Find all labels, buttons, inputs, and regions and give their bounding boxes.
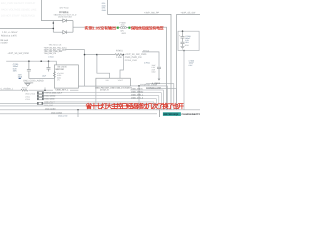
wire bottom line B xyxy=(0,109,200,111)
svg-text:DO NOT STUFF RESERVED: DO NOT STUFF RESERVED xyxy=(1,15,35,18)
wire cap bank drop xyxy=(183,51,185,110)
wire bottom diode branch xyxy=(53,31,73,33)
svg-text:省十七灯大主控已经返修过几次了换了也开: 省十七灯大主控已经返修过几次了换了也开 xyxy=(85,103,185,111)
wire r1 branch down xyxy=(138,86,140,110)
green pad right of fuse xyxy=(128,27,130,29)
junction dot r1 xyxy=(138,85,140,87)
label net TRA block xyxy=(44,47,67,55)
ghost text top-left xyxy=(1,2,37,17)
svg-text:3528: 3528 xyxy=(185,44,189,47)
svg-text:WR7990 BQ2: WR7990 BQ2 xyxy=(163,113,179,116)
fan row r0 xyxy=(146,84,174,110)
svg-text:R7951: R7951 xyxy=(116,50,123,53)
svg-text:20%: 20% xyxy=(185,41,189,44)
svg-text:+3VP_S0_SW_C500: +3VP_S0_SW_C500 xyxy=(125,53,147,56)
cap bank box xyxy=(178,31,199,50)
svg-text:C_AG500_L: C_AG500_L xyxy=(1,88,14,91)
fan row r3 xyxy=(130,90,163,110)
box charger left edge xyxy=(159,110,161,117)
svg-text:0R33 L7510: 0R33 L7510 xyxy=(25,93,35,96)
junction dots feed xyxy=(84,54,98,56)
teal highlight xyxy=(163,112,181,116)
svg-text:D5700 SOT-363: D5700 SOT-363 xyxy=(58,15,72,18)
svg-text:C7911: C7911 xyxy=(144,61,151,64)
svg-text:TRA_SD1_CD: TRA_SD1_CD xyxy=(44,52,57,55)
pad FB2 ends xyxy=(37,95,38,97)
svg-text:+3VP_S0_SW_F450: +3VP_S0_SW_F450 xyxy=(8,52,30,55)
svg-text:1%: 1% xyxy=(57,78,60,81)
wire input left xyxy=(0,27,53,29)
green pad left of fuse xyxy=(117,27,119,29)
svg-text:PP1V5: PP1V5 xyxy=(143,49,149,52)
junction dot cap bank xyxy=(182,30,184,32)
wire row VDD0 xyxy=(44,99,157,110)
ferrite bead FB1 xyxy=(37,92,43,94)
svg-text:L7512: L7512 xyxy=(25,98,30,101)
svg-text:mode2: mode2 xyxy=(1,41,9,44)
diode D1 top xyxy=(63,19,67,22)
label cap col2 xyxy=(189,59,195,66)
wire main bus xyxy=(6,61,56,65)
label box values xyxy=(57,72,64,81)
svg-text:WR7332: WR7332 xyxy=(55,68,64,71)
svg-text:L7511: L7511 xyxy=(25,95,30,98)
wire gnd rail xyxy=(29,78,55,80)
wire R junction down xyxy=(120,55,123,79)
mark dark blue dash xyxy=(19,77,21,80)
wire row SW_F xyxy=(44,93,162,110)
svg-text:0603: 0603 xyxy=(122,32,126,35)
pad pill A1 ends xyxy=(37,102,38,104)
svg-text:C500_VIN75: C500_VIN75 xyxy=(131,88,143,91)
svg-text:+3VP_SW_PP: +3VP_SW_PP xyxy=(144,12,159,15)
junction dots diode rail xyxy=(53,22,55,29)
connector box C500 xyxy=(96,78,130,86)
svg-text:AT BUT_R: AT BUT_R xyxy=(100,89,109,92)
capacitor C7021 xyxy=(27,61,31,78)
wire C_AG line xyxy=(0,89,78,91)
svg-text:+3VR15_C500_SW_F: +3VR15_C500_SW_F xyxy=(44,92,63,95)
label top net1 pins xyxy=(102,2,106,12)
svg-text:0402: 0402 xyxy=(152,71,156,74)
ferrite bead FB2 xyxy=(37,95,43,97)
svg-text:+3VP_S5_SW: +3VP_S5_SW xyxy=(181,12,197,15)
svg-text:PP3V0_C500: PP3V0_C500 xyxy=(125,59,138,62)
diode D2 bottom xyxy=(63,31,67,34)
wire bottom line A1 xyxy=(0,102,157,104)
power arrow down xyxy=(158,79,161,81)
wire drop from line B xyxy=(77,110,79,117)
svg-text:TRA SD1 CLK: TRA SD1 CLK xyxy=(49,44,62,47)
svg-text:R5203 at 0.975: R5203 at 0.975 xyxy=(1,35,17,38)
wire connector box drop xyxy=(95,86,97,110)
svg-text:DM3: DM3 xyxy=(102,9,106,12)
svg-text:C500_x700: C500_x700 xyxy=(58,114,67,117)
node right diode rail xyxy=(72,21,74,33)
svg-text:WR7 PD43: WR7 PD43 xyxy=(60,7,69,10)
svg-text:C500_VDD0: C500_VDD0 xyxy=(44,98,54,101)
wire diode output to fuse xyxy=(73,26,117,28)
pad FB3 ends xyxy=(37,98,38,100)
capacitor C7911 xyxy=(157,67,161,78)
op-amp box B8 LM358 xyxy=(54,65,78,88)
svg-text:1.00K: 1.00K xyxy=(116,56,122,59)
svg-text:C500_PWR_EN: C500_PWR_EN xyxy=(125,56,142,59)
svg-text:C500_SET_L: C500_SET_L xyxy=(55,89,69,92)
svg-text:1.2K, +/- 50mV: 1.2K, +/- 50mV xyxy=(2,31,18,34)
svg-text:C500_AGND: C500_AGND xyxy=(45,107,56,110)
wire box1 to connector xyxy=(78,85,96,87)
wire top diode branch xyxy=(53,20,73,22)
component pill on A1 xyxy=(37,102,43,104)
svg-text:C500_VDDIO: C500_VDDIO xyxy=(44,95,56,98)
svg-text:SYSRAM_CV5R: SYSRAM_CV5R xyxy=(140,83,157,86)
svg-text:C500_VDDIO: C500_VDDIO xyxy=(131,90,144,93)
junction dots bus xyxy=(28,60,49,62)
ferrite bead FB3 xyxy=(37,98,43,100)
svg-text:GND_C500_AGND: GND_C500_AGND xyxy=(23,80,44,83)
wire row RTCX xyxy=(54,102,154,110)
ground symbol AGND xyxy=(24,83,33,86)
wire bottom line A2 xyxy=(0,105,157,107)
wire top net 1 xyxy=(108,0,171,110)
svg-text:C7022: C7022 xyxy=(48,56,53,59)
capacitor C7022 xyxy=(47,61,51,71)
svg-text:R7520: R7520 xyxy=(22,87,27,90)
wire top net 2 xyxy=(177,14,201,109)
junction dot C_AG xyxy=(44,89,46,91)
wire cap column feed xyxy=(142,52,159,67)
wire row VDDIO xyxy=(44,96,159,110)
wire vertical top-left xyxy=(42,0,54,21)
label C7021 block xyxy=(13,63,22,79)
svg-text:C500_A/GND: C500_A/GND xyxy=(51,111,63,114)
capacitor C7908 xyxy=(181,31,185,49)
wire feed to R7951 xyxy=(65,50,110,87)
svg-text:实测1.05没有输出: 实测1.05没有输出 xyxy=(85,26,117,31)
resistor on C_AG line xyxy=(21,89,28,91)
svg-text:VOUT: VOUT xyxy=(118,79,124,82)
fan row r1 SYSRAM xyxy=(130,86,167,110)
svg-text:C500_VDD_1: C500_VDD_1 xyxy=(131,93,144,96)
svg-text:保险丝后面没有电压: 保险丝后面没有电压 xyxy=(130,26,164,31)
svg-text:C500_CLK_3: C500_CLK_3 xyxy=(131,96,144,99)
wire bottom line C xyxy=(0,113,157,115)
label C7908 block xyxy=(185,35,191,44)
svg-text:20%: 20% xyxy=(13,70,17,73)
resistor R7951 xyxy=(97,54,124,56)
pad FB1 ends xyxy=(37,92,38,94)
svg-text:SYSRAM_CV5R: SYSRAM_CV5R xyxy=(146,86,161,89)
svg-text:B8 LM35: B8 LM35 xyxy=(58,66,68,69)
junction dot cap box bottom xyxy=(183,50,185,52)
resistor R inside box xyxy=(53,71,55,78)
wire C_AG stub up xyxy=(44,87,46,90)
fan row r2 xyxy=(146,89,177,110)
fuse F7000 xyxy=(119,27,129,29)
node left diode rail xyxy=(52,21,54,33)
junction dot R out xyxy=(123,54,125,56)
wire fuse output xyxy=(131,27,167,110)
junction dot line B xyxy=(77,109,79,111)
svg-text:BAT_PWR DETECT CIRCUIT: BAT_PWR DETECT CIRCUIT xyxy=(1,2,36,5)
svg-text:CHARGER&OTG: CHARGER&OTG xyxy=(182,113,201,116)
bottom right block xyxy=(160,110,201,117)
svg-text:C500_RXD: C500_RXD xyxy=(44,104,54,107)
svg-text:PACK VOLTAGE SENSE LINE: PACK VOLTAGE SENSE LINE xyxy=(1,8,37,11)
